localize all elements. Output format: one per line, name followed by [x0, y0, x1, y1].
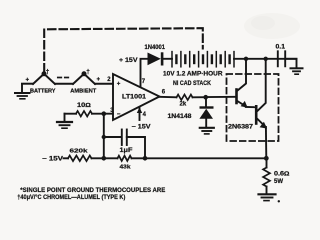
node dot inverting input [102, 111, 107, 116]
svg-text:LT1001: LT1001 [122, 95, 147, 101]
ground (1N4148) [200, 128, 214, 134]
svg-text:2: 2 [107, 77, 111, 83]
wire -15V to 620k [64, 157, 69, 159]
ground (battery thermocouple, far left) [15, 84, 30, 99]
svg-text:+: + [117, 81, 121, 88]
wire 43k to right node [132, 157, 146, 159]
resistor 620k [68, 156, 92, 162]
diode 1N4148 [199, 97, 213, 127]
wire base Q1 from 2k [206, 96, 236, 98]
svg-text:0.6Ω: 0.6Ω [274, 172, 290, 178]
svg-text:BATTERY: BATTERY [30, 89, 56, 95]
resistor 43k [118, 156, 132, 161]
wire cap to ground [285, 59, 296, 68]
wire ground to battery thermocouple [22, 83, 33, 85]
wire 2k to node [193, 96, 206, 98]
svg-text:−: − [117, 111, 121, 118]
dashed package outline 2N6387 [227, 74, 279, 141]
svg-text:+: + [26, 76, 30, 83]
ground (10 ohm single point) [57, 114, 72, 129]
wire Q2 emitter down [265, 127, 267, 158]
wire Q1 collector [238, 59, 247, 91]
svg-text:5W: 5W [274, 179, 283, 185]
svg-text:4: 4 [143, 112, 147, 118]
wire to op-amp pin 2 [95, 83, 113, 85]
svg-text:10Ω: 10Ω [77, 103, 91, 109]
svg-text:6: 6 [162, 90, 166, 96]
svg-text:†: † [86, 69, 90, 76]
node dot emitter sense [264, 156, 269, 161]
svg-text:NI CAD STACK: NI CAD STACK [173, 81, 212, 87]
wire op-amp pin 3 row [92, 113, 113, 115]
svg-text:7: 7 [142, 79, 146, 85]
svg-text:+: + [97, 76, 101, 83]
node dot cap row [102, 135, 106, 139]
svg-text:43k: 43k [120, 165, 132, 171]
wire to 0.6 ohm [266, 158, 268, 167]
svg-text:+ 15V: + 15V [119, 58, 138, 64]
svg-text:†: † [46, 69, 50, 76]
svg-text:2k: 2k [180, 102, 187, 108]
diode 1N4001 [148, 52, 164, 65]
node dot ambient thermocouple [82, 71, 87, 76]
capacitor 0.1 [278, 51, 285, 66]
svg-text:2N6387: 2N6387 [228, 125, 254, 131]
battery B1 NiCad stack [172, 52, 234, 67]
wire op-amp output pin 6 [160, 96, 177, 99]
resistor 10 ohm [76, 111, 92, 116]
transistor Q1 (darlington input) [237, 90, 256, 108]
svg-text:− 15V: − 15V [42, 157, 63, 163]
wire node to 43k [104, 157, 118, 159]
pin 4 wire (-15V) with arrow [137, 107, 142, 120]
wire 620k to node [92, 157, 104, 159]
wire Q2 collector [257, 59, 265, 111]
resistor 0.6 ohm 5W [263, 168, 270, 187]
svg-text:10V 1.2 AMP·HOUR: 10V 1.2 AMP·HOUR [163, 72, 223, 78]
wire to 1uF cap [104, 136, 121, 138]
svg-text:†40μV/°C CHROMEL—ALUMEL (TYPE: †40μV/°C CHROMEL—ALUMEL (TYPE K) [17, 194, 125, 201]
transistor Q2 (darlington output) [256, 106, 267, 128]
wire feedback sense line [145, 157, 266, 159]
thermocouple (BATTERY) [33, 74, 55, 84]
wire 0.6 ohm to ground [266, 187, 268, 194]
node dot feedback right [143, 156, 148, 161]
svg-text:1μF: 1μF [120, 148, 133, 154]
capacitor 1uF [122, 130, 127, 146]
op-amp U1 LT1001 [113, 74, 160, 120]
minus marks [58, 77, 62, 79]
ground (0.1 cap) [291, 68, 303, 74]
node dot Q2 collector rail [264, 57, 268, 61]
svg-text:1N4148: 1N4148 [168, 114, 193, 120]
period dot after ground [278, 200, 280, 202]
node dot feedback bottom left [102, 156, 107, 161]
node dot diode clamp [203, 95, 208, 100]
pin 7 wire (+15V) [141, 59, 148, 87]
svg-text:− 15V: − 15V [132, 125, 151, 131]
wire feedback vertical [103, 114, 105, 159]
wire ground to 10 ohm [65, 113, 77, 115]
node dot battery thermocouple [42, 71, 47, 76]
thermocouple (AMBIENT) [73, 74, 95, 84]
svg-text:1N4001: 1N4001 [145, 45, 166, 51]
wire battery to +V rail [234, 58, 297, 60]
ground (0.6 ohm) [259, 194, 276, 200]
node dot Q1 collector rail [244, 57, 248, 61]
resistor 2k [177, 95, 193, 100]
wire 1uF to corner [127, 137, 145, 158]
wire diode to battery [163, 58, 172, 60]
scan smudge [244, 13, 300, 39]
dashed thermal coupling line [44, 28, 203, 71]
svg-text:AMBIENT: AMBIENT [70, 89, 97, 95]
wire between thermocouples [55, 83, 73, 85]
svg-text:620k: 620k [70, 149, 89, 155]
svg-text:0.1: 0.1 [276, 45, 286, 51]
